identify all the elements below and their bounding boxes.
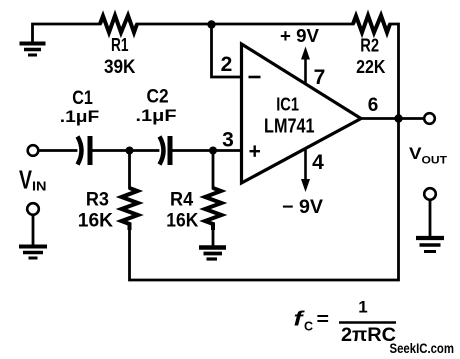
svg-text:IN: IN <box>32 180 47 194</box>
svg-text:7: 7 <box>314 66 326 89</box>
svg-text:OUT: OUT <box>422 155 448 167</box>
svg-text:C2: C2 <box>147 86 169 107</box>
svg-text:V: V <box>19 165 32 195</box>
svg-text:22K: 22K <box>356 57 385 77</box>
svg-text:SeekIC.com: SeekIC.com <box>390 341 455 356</box>
svg-text:IC1: IC1 <box>276 94 299 114</box>
svg-text:V: V <box>409 144 422 163</box>
svg-text:R3: R3 <box>86 189 109 210</box>
svg-text:R2: R2 <box>360 36 379 56</box>
svg-text:4: 4 <box>312 151 324 174</box>
svg-text:C: C <box>304 320 313 334</box>
svg-text:R1: R1 <box>111 35 129 55</box>
svg-text:2πRC: 2πRC <box>341 325 396 346</box>
svg-text:C1: C1 <box>72 88 93 109</box>
svg-text:+ 9V: + 9V <box>280 26 319 46</box>
svg-text:R4: R4 <box>170 189 194 210</box>
svg-text:LM741: LM741 <box>264 115 315 137</box>
svg-text:1: 1 <box>358 298 367 317</box>
svg-text:=: = <box>317 309 330 329</box>
svg-text:.1μF: .1μF <box>60 107 100 126</box>
svg-text:3: 3 <box>222 129 234 152</box>
svg-text:16K: 16K <box>78 210 113 232</box>
svg-text:6: 6 <box>368 95 379 116</box>
svg-text:39K: 39K <box>104 57 136 78</box>
svg-text:2: 2 <box>221 53 233 76</box>
svg-text:− 9V: − 9V <box>282 197 323 218</box>
svg-text:.1μF: .1μF <box>136 106 177 125</box>
svg-text:16K: 16K <box>166 210 198 232</box>
